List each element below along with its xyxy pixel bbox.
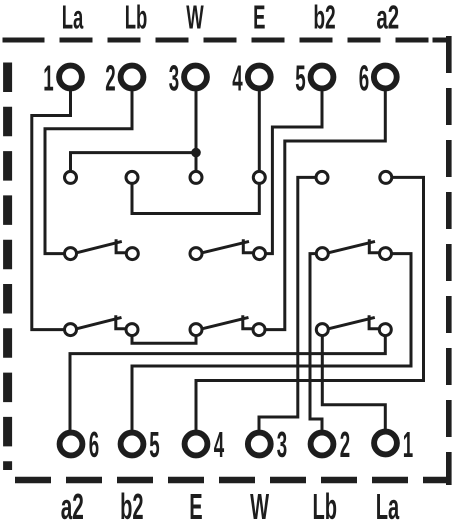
- svg-text:6: 6: [359, 59, 369, 99]
- svg-text:5: 5: [295, 59, 305, 99]
- wire bottom terminal5-to-switchB3 right contact: [132, 254, 411, 430]
- svg-text:5: 5: [149, 426, 159, 466]
- switch B2 (row1 middle): [190, 239, 266, 259]
- switch C2 (row2 middle): [190, 315, 265, 335]
- svg-text:La: La: [376, 487, 400, 524]
- svg-text:W: W: [186, 0, 204, 36]
- svg-text:E: E: [253, 0, 265, 36]
- wire terminal3 branch to contact A1: [71, 153, 197, 171]
- svg-text:a2: a2: [61, 487, 84, 524]
- svg-text:a2: a2: [376, 0, 399, 36]
- svg-text:b2: b2: [313, 0, 335, 36]
- svg-text:4: 4: [214, 426, 224, 466]
- wire bottom terminal6-to-switchC3 right contact: [70, 337, 385, 431]
- switch C3 (row2 right): [316, 315, 391, 335]
- svg-text:2: 2: [340, 426, 350, 466]
- svg-text:6: 6: [89, 426, 99, 466]
- terminal 6 bottom (a2): [60, 433, 83, 456]
- terminal 1 bottom (La): [374, 432, 397, 455]
- svg-text:Lb: Lb: [312, 487, 337, 524]
- wire terminal2-to-switchB1 left contact: [45, 90, 132, 254]
- terminal 4 top (E): [248, 66, 271, 89]
- terminal 4 bottom (E): [185, 433, 208, 456]
- svg-text:1: 1: [43, 59, 53, 99]
- svg-text:b2: b2: [120, 487, 143, 524]
- wire contact A4 to contact A2: [132, 184, 259, 213]
- dashed border bottom: [15, 477, 451, 484]
- contact A6: [380, 171, 392, 183]
- svg-text:E: E: [189, 487, 202, 524]
- wire terminal1-to-switchC1 left contact: [32, 90, 71, 330]
- svg-text:4: 4: [232, 59, 242, 99]
- dashed border top: [0, 38, 451, 43]
- dashed border right: [446, 36, 452, 485]
- wire bottom terminal1-to-switchC3 left contact: [322, 337, 385, 431]
- contact A1: [65, 171, 77, 183]
- terminal 5 bottom (b2): [121, 433, 144, 456]
- contact A5: [316, 171, 328, 183]
- terminal 2 top (Lb): [121, 66, 144, 89]
- wire bottom terminal2-to-switchB3 left contact: [310, 254, 322, 430]
- svg-text:2: 2: [105, 59, 115, 99]
- terminal 1 top (La): [59, 66, 82, 89]
- svg-text:La: La: [62, 0, 84, 36]
- wire terminal6-to-switchC2 right contact: [266, 90, 385, 330]
- svg-text:W: W: [250, 487, 269, 524]
- terminal 2 bottom (Lb): [311, 433, 334, 456]
- terminal 3 bottom (W): [248, 433, 271, 456]
- junction dot node W: [191, 148, 201, 158]
- terminal 3 top (W): [184, 66, 207, 89]
- wire terminal5-to-switchB2 right contact: [266, 90, 322, 254]
- contact A2: [126, 171, 138, 183]
- switch C1 (row2 left): [65, 315, 139, 335]
- switch B3 (row1 right): [316, 239, 391, 259]
- svg-text:1: 1: [403, 426, 413, 466]
- svg-text:3: 3: [169, 59, 179, 99]
- terminal 5 top (b2): [311, 66, 334, 89]
- switch B1 (row1 left): [65, 239, 139, 259]
- svg-text:3: 3: [277, 426, 287, 466]
- dashed border left: [3, 63, 12, 471]
- wire bottom terminal4-to-contact A6: [196, 177, 424, 430]
- svg-text:Lb: Lb: [125, 0, 148, 36]
- wire bottom terminal3-to-contact A5: [259, 177, 315, 430]
- terminal 6 top (a2): [374, 66, 397, 89]
- wire terminal3 stem to contact A3: [195, 90, 198, 171]
- wire terminal4 stem to contact A4: [258, 90, 261, 171]
- wire link switchC1 right to switchC2 left: [132, 337, 196, 344]
- contact A4: [253, 171, 265, 183]
- contact A3: [190, 171, 202, 183]
